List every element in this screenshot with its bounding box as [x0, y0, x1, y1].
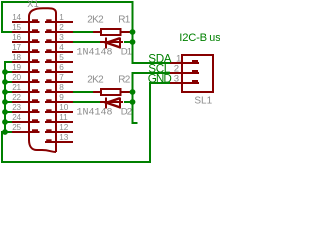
svg-text:12: 12 — [59, 123, 69, 132]
svg-text:5: 5 — [59, 53, 64, 62]
svg-text:24: 24 — [12, 113, 21, 122]
svg-text:1: 1 — [59, 13, 64, 22]
svg-text:us: us — [209, 32, 220, 44]
svg-text:18: 18 — [12, 53, 21, 62]
svg-text:3: 3 — [174, 74, 179, 85]
svg-text:SL1: SL1 — [194, 96, 212, 107]
svg-text:3: 3 — [59, 33, 64, 42]
svg-text:19: 19 — [12, 63, 21, 72]
svg-text:8: 8 — [59, 83, 64, 92]
svg-text:21: 21 — [12, 83, 21, 92]
svg-text:2: 2 — [59, 23, 64, 32]
svg-text:23: 23 — [12, 103, 21, 112]
svg-text:25: 25 — [12, 123, 21, 132]
svg-text:1N4148: 1N4148 — [77, 108, 113, 119]
svg-text:13: 13 — [59, 133, 69, 142]
svg-text:I2C-B: I2C-B — [179, 32, 207, 44]
svg-text:9: 9 — [59, 93, 64, 102]
svg-text:11: 11 — [59, 113, 68, 122]
svg-text:22: 22 — [12, 93, 21, 102]
svg-text:4: 4 — [59, 43, 64, 52]
svg-text:15: 15 — [12, 23, 21, 32]
svg-text:2K2: 2K2 — [87, 15, 104, 26]
svg-text:2K2: 2K2 — [87, 75, 104, 86]
svg-text:GND: GND — [148, 73, 172, 86]
svg-text:7: 7 — [59, 73, 64, 82]
svg-text:14: 14 — [12, 13, 21, 22]
svg-text:10: 10 — [59, 103, 69, 112]
svg-text:D1: D1 — [121, 47, 132, 58]
svg-text:16: 16 — [12, 33, 21, 42]
svg-text:1N4148: 1N4148 — [77, 48, 113, 59]
svg-text:R2: R2 — [118, 75, 130, 86]
svg-text:D2: D2 — [121, 107, 132, 118]
svg-text:6: 6 — [59, 63, 64, 72]
svg-text:R1: R1 — [118, 15, 130, 26]
svg-text:17: 17 — [12, 43, 21, 52]
svg-text:X1: X1 — [27, 0, 39, 9]
svg-text:20: 20 — [12, 73, 21, 82]
